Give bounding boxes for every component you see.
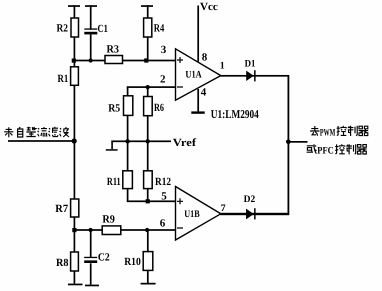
svg-text:PFC: PFC: [317, 146, 333, 157]
node: C1 bottom junction: [89, 58, 93, 62]
wire: R5/R11 column (pin2 line to pin5 line): [127, 86, 129, 202]
svg-text:U1A: U1A: [185, 70, 202, 81]
ground bar under R8: [68, 284, 83, 286]
wire: op-amp pin 5 line: [127, 200, 176, 202]
svg-text:6: 6: [160, 217, 166, 229]
resistor R1: [58, 67, 79, 86]
wire: R10 column (pin6 line to ground): [147, 229, 149, 283]
node: left rail / R9 junction: [72, 228, 76, 232]
svg-text:R12: R12: [155, 176, 171, 188]
svg-text:C1: C1: [98, 23, 108, 35]
wire: input line from left edge: [8, 140, 75, 142]
resistor R3: [105, 44, 123, 64]
resistor R8: [56, 252, 78, 271]
net label: 去PWM控制器 (output line 1): [310, 126, 368, 139]
wire: C1 column top: [90, 5, 92, 30]
resistor R11: [107, 171, 133, 189]
svg-text:1: 1: [220, 60, 225, 71]
resistor R10: [124, 252, 153, 271]
net label: 或PFC控制器 (output line 2): [307, 144, 367, 157]
resistor R2: [57, 18, 79, 37]
node: R10 top junction: [145, 228, 149, 232]
node: C2 top junction: [89, 228, 93, 232]
wire: op-amp pin 4 down: [197, 89, 199, 113]
op-amp U1A: [176, 49, 221, 100]
svg-text:Vcc: Vcc: [200, 1, 218, 13]
ground bar at Vref line: [106, 149, 118, 151]
svg-text:R4: R4: [154, 22, 165, 34]
resistor R9: [102, 213, 121, 234]
svg-text:3: 3: [161, 44, 167, 56]
wire: output stub to labels: [288, 141, 308, 143]
node: output junction on right rail: [286, 140, 291, 145]
svg-text:4: 4: [201, 87, 207, 99]
resistor R5: [108, 96, 133, 116]
node: R6 top junction: [146, 85, 150, 89]
wire: Vcc to op-amp pin 8: [197, 6, 199, 62]
svg-text:7: 7: [221, 203, 226, 214]
wire: R4 column (bar to node A line): [147, 5, 149, 60]
svg-text:R8: R8: [56, 257, 69, 269]
svg-text:D1: D1: [245, 58, 256, 69]
wire: C2 column bottom: [90, 263, 92, 284]
wire: C2 column top: [90, 229, 92, 257]
svg-text:C2: C2: [98, 251, 110, 263]
node: R2 bottom junction: [72, 59, 76, 63]
wire: right rail vertical: [288, 75, 290, 215]
node: R6 bottom / Vref line junction: [146, 139, 150, 143]
svg-text:R11: R11: [107, 176, 121, 188]
wire: R2 top terminal bar: [68, 5, 80, 7]
ground stub at Vref line: [111, 141, 113, 150]
wire: pin 6 line through R9: [74, 229, 176, 231]
node: input junction on left rail: [72, 138, 77, 143]
ground bar at pin 4: [191, 111, 204, 113]
ground bar under C2: [85, 285, 99, 287]
resistor R4: [144, 18, 165, 37]
svg-text:R2: R2: [57, 23, 69, 35]
capacitor C2: [84, 251, 110, 263]
svg-text:R9: R9: [102, 213, 115, 225]
resistor R12: [144, 171, 172, 189]
wire: op-amp pin 2 line: [127, 86, 176, 88]
capacitor C1: [84, 23, 108, 35]
wire: C1 column bottom to node A line: [90, 34, 92, 61]
wire: U1B output through D2 (thick): [220, 213, 289, 215]
wire: Vref horizontal line: [111, 140, 171, 142]
wire: node A horizontal line to op-amp pin 3: [74, 60, 176, 62]
svg-text:R1: R1: [58, 73, 69, 85]
op-amp U1B: [176, 187, 221, 241]
svg-text:D2: D2: [244, 194, 256, 205]
svg-text:5: 5: [161, 190, 167, 202]
svg-text:U1B: U1B: [184, 209, 200, 220]
wire: U1A output through D1: [220, 75, 289, 77]
diode D1: [245, 58, 256, 81]
wire: left rail top (bar to node A): [74, 5, 76, 60]
node: R4 bottom junction: [144, 58, 148, 62]
svg-text:PWM: PWM: [320, 127, 336, 138]
svg-text:R5: R5: [108, 102, 120, 114]
svg-text:R7: R7: [55, 203, 68, 215]
net label: 来自整流滤波 (input): [4, 127, 69, 137]
wire: R4 top terminal bar: [141, 5, 153, 7]
svg-text:U1:LM2904: U1:LM2904: [211, 107, 259, 121]
wire: left rail (node A down to bottom ground): [74, 60, 76, 284]
wire: C1 top terminal bar: [85, 5, 97, 7]
svg-text:8: 8: [202, 51, 208, 63]
resistor R7: [55, 199, 78, 217]
svg-text:Vref: Vref: [173, 137, 197, 149]
svg-text:R6: R6: [154, 102, 164, 114]
wire: R6/R12 column (pin2 line to pin5 line): [147, 86, 149, 202]
node: R12 bottom junction: [146, 199, 150, 203]
svg-text:R10: R10: [124, 256, 141, 268]
diode D2: [244, 194, 256, 220]
svg-text:2: 2: [160, 73, 166, 85]
ground bar under R10: [141, 283, 156, 285]
node: R5 bottom / Vref line junction: [125, 139, 129, 143]
svg-text:R3: R3: [107, 44, 120, 56]
resistor R6: [144, 97, 165, 116]
